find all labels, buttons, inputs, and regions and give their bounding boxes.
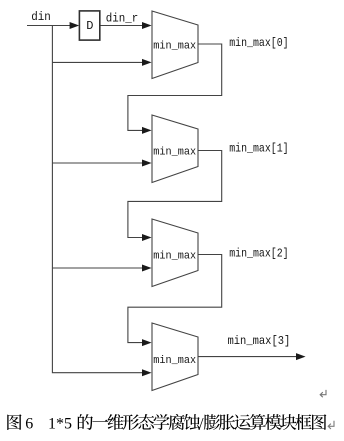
paragraph return mark after diagram — [320, 390, 326, 397]
wire: U3 output feedback route to U4 upper input — [128, 255, 222, 343]
svg-text:min_max[3]: min_max[3] — [228, 334, 291, 348]
arrowhead into min_max U3 upper input — [142, 234, 152, 241]
min_max comparator U2 (trapezoid) — [152, 115, 198, 183]
svg-text:min_max: min_max — [153, 355, 196, 367]
wire: din vertical branch bus — [52, 26, 142, 373]
paragraph return mark after caption — [328, 421, 334, 429]
wire: branch to U1 lower input — [52, 61, 142, 63]
arrowhead into D flip-flop — [70, 22, 80, 29]
arrowhead of final output — [296, 353, 306, 360]
wire: U2 output feedback route to U3 upper input — [128, 151, 222, 238]
arrowhead into min_max U2 lower input — [142, 160, 152, 167]
wire: U4 output min_max[3] to the right — [198, 356, 296, 358]
min_max comparator U4 (trapezoid) — [152, 323, 198, 391]
wire: din main horizontal — [27, 25, 71, 27]
svg-text:din_r: din_r — [106, 12, 139, 25]
svg-text:min_max: min_max — [153, 147, 196, 159]
caption: figure 6 title — [7, 414, 326, 433]
svg-text:min_max[0]: min_max[0] — [229, 36, 288, 50]
svg-text:din: din — [31, 11, 51, 24]
wire: U1 output feedback route to U2 upper input — [128, 44, 222, 130]
arrowhead into min_max U4 upper input — [142, 339, 152, 346]
svg-text:/: / — [199, 416, 204, 433]
arrowhead into min_max U1 lower input — [142, 59, 152, 66]
wire: din_r from D to U1 — [100, 25, 143, 27]
wire: branch to U3 lower input — [52, 267, 142, 269]
svg-text:min_max[2]: min_max[2] — [229, 246, 288, 260]
D flip-flop register box — [79, 11, 99, 40]
arrowhead into min_max U3 lower input — [142, 265, 152, 272]
svg-text:min_max[1]: min_max[1] — [229, 141, 288, 155]
svg-text:min_max: min_max — [153, 40, 196, 52]
arrowhead into min_max U1 upper input — [142, 22, 152, 29]
svg-text:min_max: min_max — [153, 250, 196, 262]
arrowhead into min_max U4 lower input — [142, 369, 152, 376]
svg-text:D: D — [86, 19, 93, 33]
svg-text:6: 6 — [25, 416, 33, 433]
svg-text:1*5: 1*5 — [48, 416, 72, 433]
wire: branch to U2 lower input — [52, 162, 142, 164]
min_max comparator U1 (trapezoid) — [152, 11, 198, 79]
arrowhead into min_max U2 upper input — [142, 127, 152, 134]
min_max comparator U3 (trapezoid) — [152, 219, 198, 287]
